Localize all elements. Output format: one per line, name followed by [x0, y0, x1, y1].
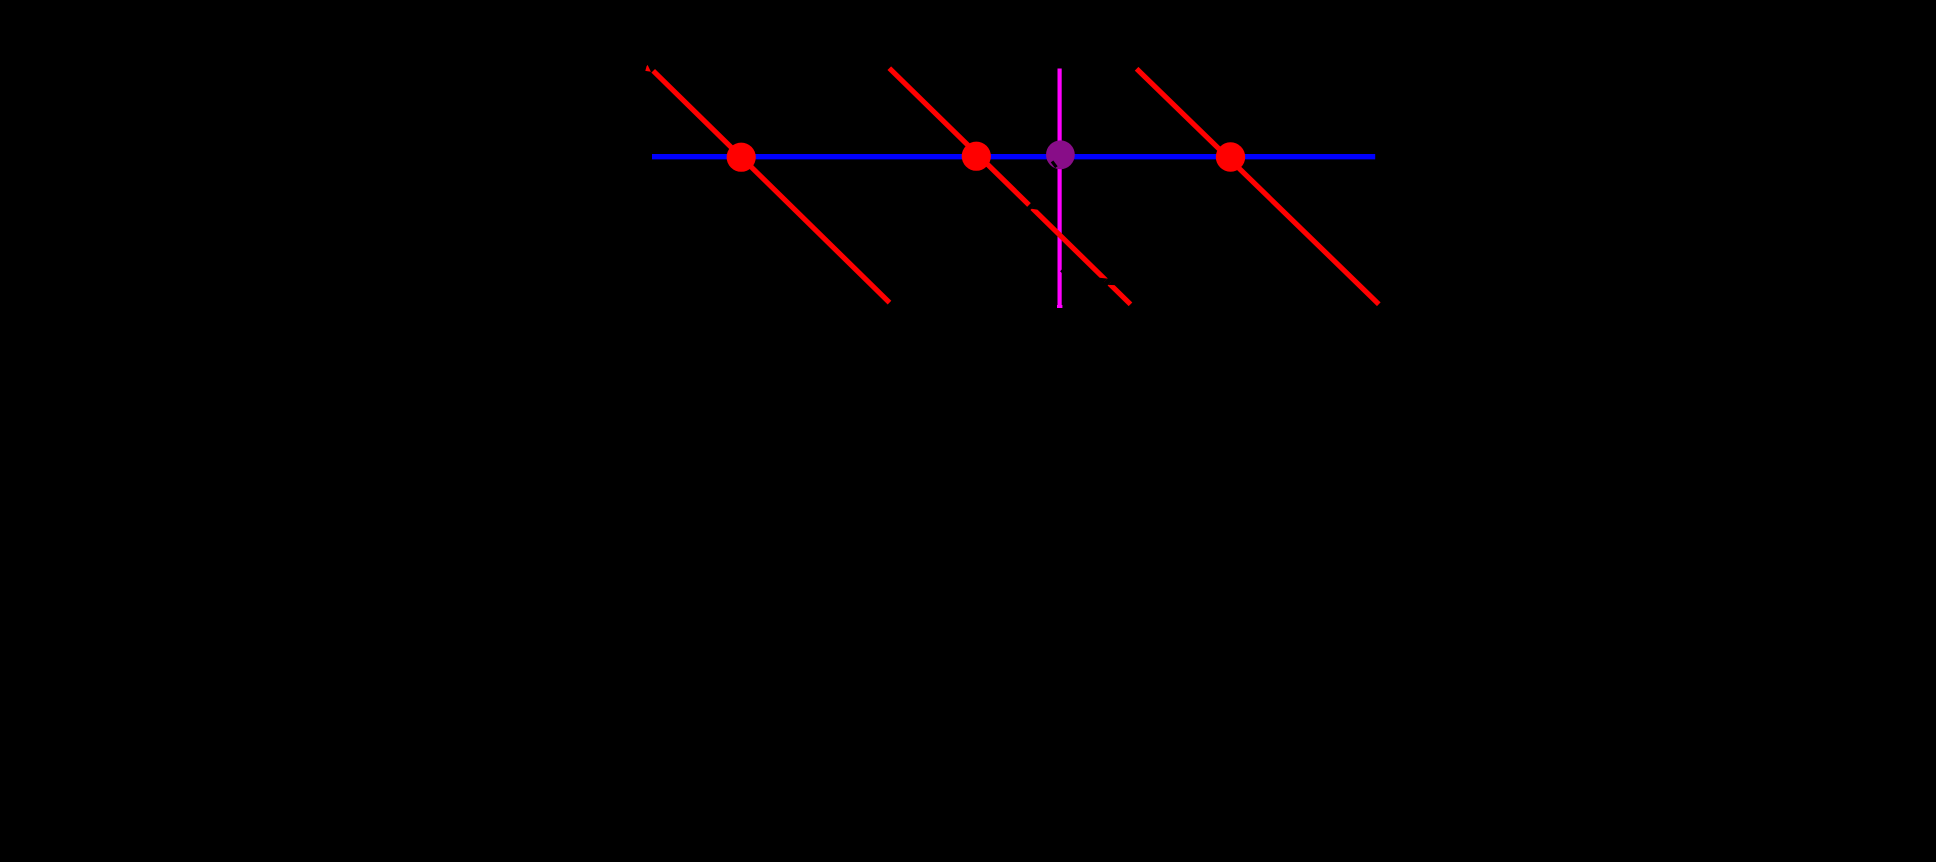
red transversal line 3	[1137, 69, 1379, 304]
red point A on line 1	[727, 143, 756, 172]
black notch on magenta line	[1060, 269, 1062, 274]
blue horizontal line m	[652, 154, 1375, 159]
black notch on purple point	[1051, 160, 1058, 168]
black gap B on line 2	[1097, 271, 1117, 291]
red point C on line 3	[1216, 142, 1245, 171]
magenta line bottom tick	[1057, 305, 1062, 308]
magenta vertical line t	[1057, 69, 1061, 309]
black gap A on line 2	[1026, 202, 1040, 216]
red arrowhead fragment on line 1	[645, 65, 651, 72]
red transversal line 2	[889, 68, 1130, 304]
purple point P at magenta/blue crossing	[1046, 140, 1075, 169]
red point B on line 2	[962, 142, 991, 171]
red transversal line 1	[653, 71, 889, 303]
